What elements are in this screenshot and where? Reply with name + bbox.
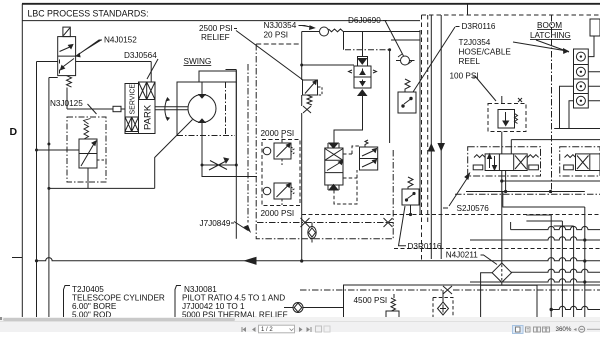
svg-text:SWING: SWING [184,57,212,66]
wire: motor case drain diagonal [155,120,193,189]
leader 2500 PSI RELIEF [236,31,303,81]
dashdot y290 [300,289,600,291]
port nub [113,106,121,111]
leader dash S2J0576 [443,207,448,209]
status bar [0,321,600,332]
svg-text:2500 PSI: 2500 PSI [199,24,233,33]
wire: y31.5 supply line [302,31,319,33]
relief 4500psi [386,294,399,318]
box swing inner dashdot edge [247,64,249,223]
next page button [299,327,303,332]
label N3J0125 [88,104,97,114]
leader dash D6J0690 [383,20,387,22]
first page button [243,327,247,332]
wire: y191.5 run [466,191,585,193]
wire: pilot pair verticals [431,15,441,259]
label D3J0564 leader [147,59,158,79]
leader dash D3R0116a [456,26,460,28]
sheet left border [21,4,23,318]
svg-text:PARK: PARK [143,104,154,130]
bus y240 [470,237,600,240]
check valve D6J0690a [320,27,421,36]
wire: motor bottom down [201,135,202,165]
svg-text:D: D [10,126,18,138]
wire: drain run y188 [49,187,155,189]
wire: valve left to left bus [37,61,58,63]
page input box [259,325,295,333]
directional valve V2 [560,147,600,176]
leader D3R0116a [413,27,455,92]
leader dash 100psi [473,76,477,78]
bus y309.5 [551,306,600,309]
wire: x236 up [235,82,237,165]
leader dash J7J0849 [231,222,234,224]
svg-text:J7J0849: J7J0849 [200,219,231,228]
svg-text:N4J0152: N4J0152 [104,36,137,45]
wire: x237 vertical [235,70,237,239]
flow arrows up/down [428,143,446,152]
wire: top border drop [467,4,469,15]
svg-text:D3R0116: D3R0116 [408,242,442,251]
title box bottom line [22,20,420,22]
vertical bus x562 [561,221,563,318]
connector box top right [590,19,600,36]
vertical bus x551 [550,215,552,318]
leader N4J0211 [481,255,498,265]
svg-text:REEL: REEL [459,57,481,66]
wire: y150 to N3J0125 [37,149,80,151]
svg-text:4500 PSI: 4500 PSI [354,296,388,305]
wire: y40 link [391,39,420,41]
wire: x301.7 vertical [301,32,303,262]
svg-text:1 / 2: 1 / 2 [261,327,273,333]
svg-text:LATCHING: LATCHING [530,31,571,40]
svg-text:D3R0116: D3R0116 [462,22,496,31]
tank box B2 [481,285,537,318]
layout icon selected [513,326,524,334]
orifice crossed arrows [209,158,229,170]
wire: x420 vertical [419,30,421,215]
svg-text:100 PSI: 100 PSI [450,72,479,81]
wire: T valve bottom [334,94,363,143]
wire: left vertical bus A [36,62,38,319]
layout icon 2 [526,327,531,332]
check in circle [308,223,316,243]
relief 2000psi #2 [263,183,294,205]
shaft to motor [155,107,189,110]
svg-text:N4J0211: N4J0211 [446,251,479,260]
dashdot line y222.5 with X [257,222,393,224]
dashdot pilot y49.8 [345,49,390,51]
wire: dashed pilot y44 [256,43,301,45]
last page button [307,327,311,332]
sheet top border [22,3,600,5]
wire: y165 with orifice [202,164,236,166]
leader S2J0576 [449,173,470,206]
box J7J0849 dashdot [256,44,393,239]
bus arrow left [245,257,256,264]
bus y229.6 [511,222,600,230]
svg-text:360%: 360% [556,326,572,333]
dashed y214.5 [302,214,600,216]
pressure switch PS2 D3R0116 [402,177,419,216]
leader J7J0849 [234,222,250,232]
wire: to SERVICE port [67,108,125,110]
valve block D3J0564 SERVICE/PARK [125,82,155,134]
layout icon 3 [534,327,537,332]
dashed sub-box 2000psi [262,140,300,206]
leader D6J0690 [385,21,404,57]
leader D3R0116b [399,206,407,246]
wire: valve spring side down [66,88,68,110]
svg-text:S2J0576: S2J0576 [457,204,490,213]
swing motor enclosure [177,82,226,136]
leader bracket T2J0405 [64,286,71,319]
vertical bus x583 [584,207,586,318]
wire: second vertical bus B [49,78,58,319]
leader dash N3J0354 [299,26,315,30]
check valve C1 [284,303,343,313]
dashed box check [433,298,453,319]
leader T2J0354 [513,42,568,53]
bus y272 [511,269,600,272]
svg-text:HOSE/CABLE: HOSE/CABLE [459,48,512,57]
wire: reel ports left [560,86,574,128]
valve N4J0152 [58,27,76,87]
horizontal scrollbar [0,317,600,321]
relief 2000psi #1 [263,136,294,165]
wire: y207 staircase [503,192,585,208]
bus y282 [470,279,600,282]
wire: x389.6 [389,50,391,143]
pressure switch PS1 [398,79,416,113]
reducing valve T2J0354b [488,98,526,132]
wire: y65 to mid valve [302,64,354,66]
relief valve 2500psi [303,80,323,113]
vertical bus x572 [573,226,575,318]
prev page button [252,327,256,332]
valve T pressure reducing [349,57,377,96]
svg-text:D6J0690: D6J0690 [348,16,381,25]
zoom-out circle [579,326,585,332]
svg-text:T2J0354: T2J0354 [459,38,491,47]
rotation arrows [165,99,168,120]
wire: reel ports right [588,72,600,101]
svg-text:N3J0354: N3J0354 [264,21,297,30]
box corner x229.6 [226,69,237,71]
wire: y176.5 [202,165,257,177]
reel T2J0354 [574,49,589,108]
dashed y248.5 [394,248,600,250]
wire: valve top right across [76,62,152,83]
bus top links [526,215,573,226]
svg-text:SERVICE: SERVICE [130,84,137,115]
wire: x343.5 stub [343,32,345,50]
wire: T valve top [362,32,364,57]
svg-text:D3J0564: D3J0564 [124,51,157,60]
svg-text:2000 PSI: 2000 PSI [261,129,295,138]
valve mid small [360,140,378,170]
directional valve V1 [468,138,600,192]
svg-text:BOOM: BOOM [537,21,562,30]
dashdot vertical x393 [392,150,394,224]
dashdot y194.3 [455,193,600,195]
junction dots left [35,143,51,263]
leader dash N4J0152 [76,40,102,57]
zone tick D [12,257,22,259]
valve N3J0125 [67,117,106,188]
wire: x501.3 [501,96,503,263]
dashed enclosure top right [422,15,600,260]
svg-text:N3J0125: N3J0125 [50,99,83,108]
check diamond D2 [438,302,449,315]
box 4500psi [344,285,600,318]
zoom slider track [587,328,600,330]
wire: y181 run [502,180,600,182]
dashed links mid valves [334,146,360,204]
zoom-out small arrow [574,328,577,331]
leader bracket N3J0081 [175,286,181,319]
junction dots right [583,238,586,283]
orifice circle D6J0690b [396,54,415,65]
leader dash 2500 [234,28,237,30]
snapshot icons [316,326,322,332]
wire: y128.5 run [554,128,600,130]
svg-text:2000 PSI: 2000 PSI [261,209,295,218]
svg-text:20 PSI: 20 PSI [264,31,289,40]
leader BOOM LATCHING [536,40,569,52]
svg-text:RELIEF: RELIEF [201,33,230,42]
filter N4J0211 [481,263,512,285]
valve S2J0576 stack [325,143,343,190]
layout icon 4 [543,327,546,332]
svg-text:LBC PROCESS STANDARDS:: LBC PROCESS STANDARDS: [28,9,149,19]
swing motor M1 [188,95,216,123]
leader 100 PSI [475,76,496,101]
main bus y261 [37,258,600,261]
dashdot vertical x547 [551,15,553,194]
